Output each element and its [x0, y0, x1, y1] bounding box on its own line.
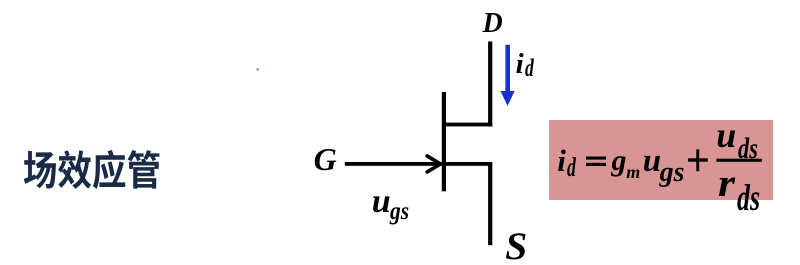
node S label [505, 227, 527, 265]
formula fraction bar [716, 159, 762, 162]
formula denominator r [718, 164, 735, 203]
gate arrowhead [427, 156, 440, 172]
voltage label u_gs : gs [390, 198, 409, 224]
title char 管 [127, 150, 159, 189]
title char 效 [58, 150, 91, 189]
wire: drain vertical lead [488, 42, 492, 127]
formula numerator u [716, 117, 736, 153]
title char 应 [93, 150, 125, 189]
formula m subscript [626, 163, 640, 181]
wire: source vertical lead [488, 163, 492, 245]
formula d subscript [567, 154, 576, 181]
node D label [483, 10, 503, 38]
stray dot artifact [257, 68, 259, 70]
voltage label u_gs : u [372, 185, 391, 219]
formula g [612, 146, 627, 176]
transistor gate bar [442, 92, 446, 191]
current label i_d : i [516, 50, 524, 79]
formula equals sign [586, 157, 606, 160]
current arrow id stem (blue) [505, 45, 510, 93]
formula u [643, 145, 661, 178]
formula highlight box [549, 120, 774, 200]
current arrow id head (blue) [500, 91, 514, 106]
wire: source horizontal [446, 162, 492, 166]
formula i [557, 145, 566, 176]
formula numerator ds subscript [738, 135, 758, 165]
node G label [314, 143, 337, 175]
current label i_d : d [525, 56, 534, 81]
wire: drain horizontal [442, 123, 492, 127]
title char 场 [24, 151, 56, 188]
formula plus sign [688, 158, 708, 161]
formula denominator ds subscript [737, 180, 760, 217]
wire: gate lead from G [345, 162, 442, 166]
formula gs subscript [660, 159, 685, 187]
